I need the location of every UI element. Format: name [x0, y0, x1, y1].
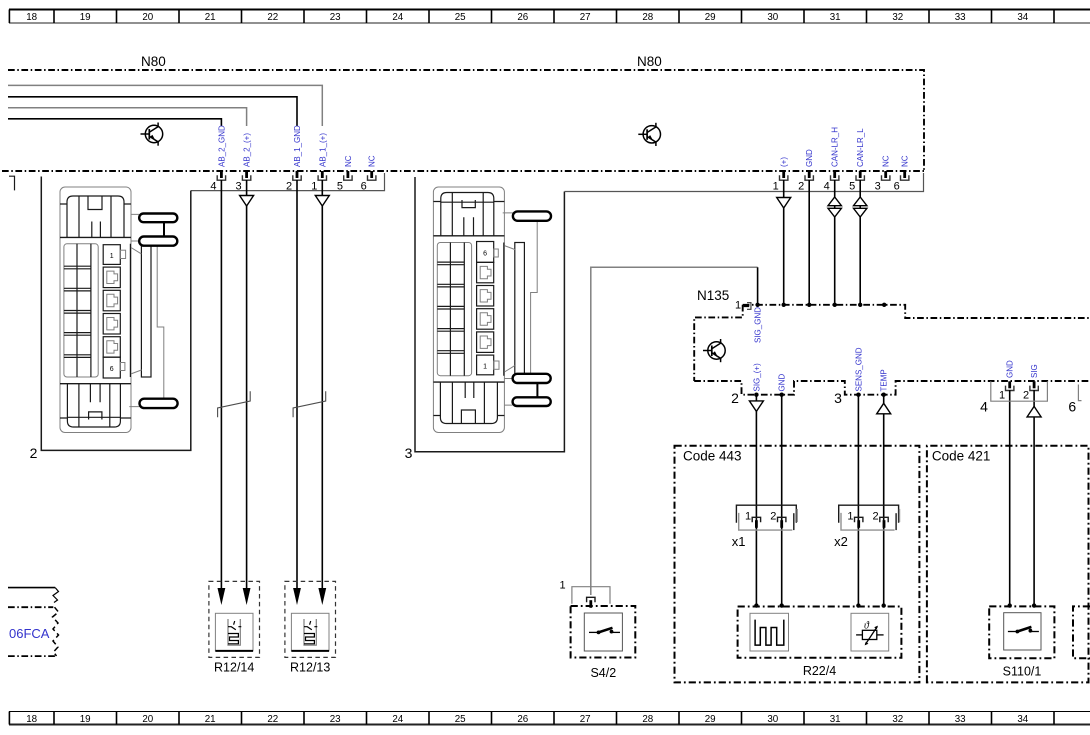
svg-text:19: 19 — [80, 714, 91, 725]
svg-text:30: 30 — [767, 714, 778, 725]
svg-text:CAN-LR_H: CAN-LR_H — [831, 127, 840, 167]
svg-text:22: 22 — [267, 714, 278, 725]
svg-text:2: 2 — [873, 511, 879, 523]
svg-text:32: 32 — [892, 12, 903, 23]
svg-text:NC: NC — [368, 155, 377, 167]
svg-text:25: 25 — [455, 714, 466, 725]
svg-text:1: 1 — [999, 390, 1005, 402]
svg-text:6: 6 — [110, 366, 114, 373]
svg-text:1: 1 — [735, 300, 741, 312]
svg-text:2: 2 — [30, 445, 38, 461]
svg-text:32: 32 — [892, 714, 903, 725]
svg-text:21: 21 — [205, 12, 216, 23]
svg-text:24: 24 — [392, 12, 403, 23]
svg-text:3: 3 — [834, 390, 842, 406]
svg-text:33: 33 — [955, 714, 966, 725]
svg-text:06FCA: 06FCA — [9, 626, 50, 641]
svg-text:34: 34 — [1017, 12, 1028, 23]
svg-text:N80: N80 — [637, 54, 662, 69]
svg-text:AB_1_GND: AB_1_GND — [293, 125, 302, 167]
svg-text:6: 6 — [483, 251, 487, 258]
svg-text:23: 23 — [330, 12, 341, 23]
svg-text:S4/2: S4/2 — [590, 666, 616, 680]
svg-text:GND: GND — [805, 149, 814, 167]
svg-text:2: 2 — [798, 181, 804, 193]
svg-text:28: 28 — [642, 12, 653, 23]
svg-text:6: 6 — [1068, 399, 1076, 415]
svg-text:31: 31 — [830, 12, 841, 23]
svg-text:22: 22 — [267, 12, 278, 23]
svg-text:1: 1 — [483, 364, 487, 371]
svg-text:18: 18 — [26, 714, 37, 725]
svg-text:29: 29 — [705, 12, 716, 23]
svg-text:4: 4 — [980, 399, 988, 415]
svg-text:SIG: SIG — [1030, 364, 1039, 378]
svg-text:29: 29 — [705, 714, 716, 725]
svg-text:1: 1 — [773, 181, 779, 193]
svg-text:S110/1: S110/1 — [1003, 665, 1042, 679]
svg-text:Code 421: Code 421 — [932, 449, 991, 464]
svg-text:23: 23 — [330, 714, 341, 725]
svg-text:x1: x1 — [732, 534, 746, 549]
svg-text:Code 443: Code 443 — [683, 449, 742, 464]
svg-text:20: 20 — [142, 12, 153, 23]
svg-text:N135: N135 — [697, 288, 729, 303]
svg-text:TEMP: TEMP — [880, 369, 889, 391]
svg-text:R22/4: R22/4 — [803, 664, 836, 678]
svg-text:19: 19 — [80, 12, 91, 23]
svg-text:25: 25 — [455, 12, 466, 23]
svg-text:AB_2_GND: AB_2_GND — [217, 125, 226, 167]
svg-text:1: 1 — [745, 511, 751, 523]
svg-text:1: 1 — [110, 253, 114, 260]
svg-text:24: 24 — [392, 714, 403, 725]
svg-text:NC: NC — [901, 155, 910, 167]
svg-text:28: 28 — [642, 714, 653, 725]
svg-text:3: 3 — [405, 445, 413, 461]
svg-text:x2: x2 — [834, 534, 848, 549]
svg-text:27: 27 — [580, 12, 591, 23]
svg-text:33: 33 — [955, 12, 966, 23]
svg-text:2: 2 — [1023, 390, 1029, 402]
svg-text:R12/13: R12/13 — [290, 661, 330, 675]
svg-text:18: 18 — [26, 12, 37, 23]
svg-text:3: 3 — [875, 181, 881, 193]
svg-text:(+): (+) — [780, 157, 789, 167]
svg-text:31: 31 — [830, 714, 841, 725]
svg-text:GND: GND — [1006, 360, 1015, 378]
svg-text:20: 20 — [142, 714, 153, 725]
svg-text:GND: GND — [778, 374, 787, 392]
svg-text:SENS_GND: SENS_GND — [854, 347, 863, 391]
svg-text:2: 2 — [731, 390, 739, 406]
svg-text:34: 34 — [1017, 714, 1028, 725]
svg-text:SIG_(+): SIG_(+) — [752, 363, 761, 392]
svg-text:30: 30 — [767, 12, 778, 23]
svg-text:6: 6 — [894, 181, 900, 193]
svg-text:1: 1 — [559, 580, 565, 592]
svg-text:26: 26 — [517, 12, 528, 23]
svg-text:R12/14: R12/14 — [214, 661, 254, 675]
svg-text:27: 27 — [580, 714, 591, 725]
svg-text:21: 21 — [205, 714, 216, 725]
svg-text:SIG_GND: SIG_GND — [754, 307, 763, 343]
svg-text:NC: NC — [882, 155, 891, 167]
svg-text:1: 1 — [847, 511, 853, 523]
svg-text:AB_2_(+): AB_2_(+) — [243, 133, 252, 167]
svg-text:AB_1_(+): AB_1_(+) — [318, 133, 327, 167]
svg-text:NC: NC — [344, 155, 353, 167]
svg-text:2: 2 — [770, 511, 776, 523]
svg-text:CAN-LR_L: CAN-LR_L — [856, 128, 865, 167]
svg-text:N80: N80 — [141, 54, 166, 69]
svg-text:5: 5 — [849, 181, 855, 193]
svg-text:4: 4 — [824, 181, 830, 193]
svg-text:26: 26 — [517, 714, 528, 725]
